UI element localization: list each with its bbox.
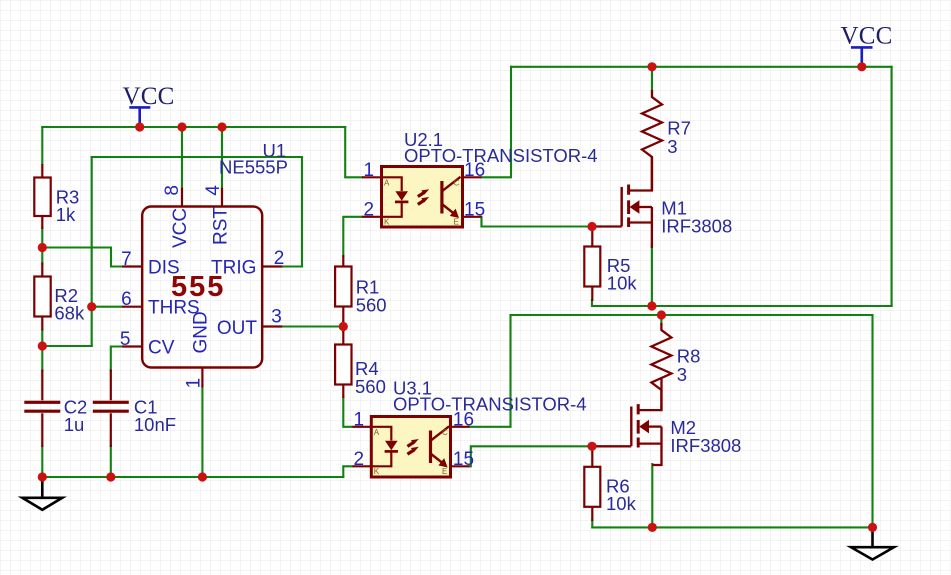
junction THRS [87,302,96,311]
svg-text:C: C [442,428,448,437]
transistor M2 MOSFET [592,377,741,465]
svg-text:560: 560 [356,295,387,316]
capacitor C2 [24,370,87,448]
wire U3 pin2 to ground rail [343,466,352,477]
svg-text:1: 1 [364,160,375,181]
svg-text:3: 3 [271,307,282,328]
U3 phototransistor [431,426,450,467]
resistor R4 [335,331,386,398]
svg-text:GND: GND [191,311,212,353]
wire R8 top lead [660,315,662,325]
resistor R1 [335,255,386,323]
wire bottom-right ground rail [592,526,872,528]
junction R3-R2 / DIS [38,243,47,252]
wire U3 pin16 riser [470,315,511,427]
U2 pin 2 stub [362,216,382,218]
transistor M1 MOSFET [592,157,732,248]
junction VCC1 stem [135,122,144,131]
U1 pin numbers [120,185,284,389]
wire THRS to pin [92,306,123,308]
wire B horizontal (R8 rail) [511,314,873,316]
svg-text:IRF3808: IRF3808 [661,216,732,237]
svg-text:4: 4 [203,185,224,196]
wire U2 pin16 riser [482,67,512,178]
ground symbol GND right [851,527,894,559]
U3 pin numbers [354,409,475,470]
wire 555 pin8 riser [181,127,183,188]
svg-text:1u: 1u [64,414,85,435]
svg-text:3: 3 [677,364,687,385]
svg-text:E: E [454,218,459,227]
svg-text:560: 560 [355,376,386,397]
wire M2 source drop [651,464,653,527]
wire R6 bottom lead [591,520,593,527]
wire C2 to ground rail [41,446,43,477]
wire R3 top riser [41,127,43,164]
junction M1 source rail [647,301,656,310]
junction R8 wire B [657,310,666,319]
U2 phototransistor [442,177,461,218]
junction VCC2 stem [857,62,866,71]
resistor R6 [584,445,636,521]
junction bottom rail ground [868,523,877,532]
pin 5 CV stub [122,345,142,347]
U3 LED [372,427,398,467]
wire C1 to ground rail [110,446,112,477]
supply symbol VCC right [851,47,873,66]
wire R2-C2 link [41,330,43,371]
pin 8 VCC stub [181,188,183,207]
wire M1 source lead lower [651,246,653,306]
wire VCC top-left rail [42,126,345,128]
resistor R3 [34,164,79,229]
wire U2 pin15 to M1 gate [482,217,593,227]
pin 4 RST stub [221,188,223,207]
resistor R2 [34,263,85,331]
junction OUT R1 R4 [339,322,348,331]
svg-text:K: K [374,467,380,476]
optocoupler U3.1 [353,378,587,477]
svg-text:K: K [384,218,390,227]
optocoupler U2.1 [362,129,598,227]
svg-text:VCC: VCC [123,83,175,110]
pin 2 TRIG stub [262,265,282,267]
svg-text:1k: 1k [56,204,76,225]
junction ground rail GND pin [198,472,207,481]
svg-text:A: A [374,428,380,437]
svg-text:TRIG: TRIG [211,257,256,278]
wire R7 top lead [651,67,653,92]
wire U3 pin15 to M2 gate [470,446,593,466]
svg-text:10nF: 10nF [134,414,176,435]
junction M1 gate R5 [587,222,596,231]
wire M1 source rail (wire A) [592,300,892,306]
svg-text:VCC: VCC [170,208,191,248]
U2 pin 15 stub [463,216,482,218]
wire U2 pin2 to R1 [343,217,362,256]
junction pin8 riser [177,122,186,131]
wire R1-R4 link [342,321,344,332]
svg-text:E: E [442,467,447,476]
wire R2 bottom to THRS column [42,345,91,347]
wire OUT net [282,325,343,327]
U2 pin numbers [364,160,486,221]
svg-text:1: 1 [354,409,365,430]
resistor R5 [584,225,637,301]
wire 555 GND riser [201,386,203,477]
resistor R7 zigzag [642,90,691,191]
svg-text:NE555P: NE555P [219,156,288,177]
U1 pin names [148,207,257,359]
U3 pin 15 stub [451,465,470,467]
svg-text:68k: 68k [54,303,85,324]
capacitor C1 [93,370,176,448]
U2 pin 1 stub [362,176,382,178]
resistor R8 zigzag [651,323,700,411]
svg-text:IRF3808: IRF3808 [670,435,741,456]
U3 light arrows [407,439,419,456]
supply symbol VCC left [129,107,150,127]
U3 pin 2 stub [353,465,372,467]
svg-text:A: A [384,179,390,188]
svg-text:CV: CV [148,337,175,358]
junction ground rail C2 [38,472,47,481]
wire DIS net [42,248,122,267]
svg-text:7: 7 [121,249,132,270]
svg-text:15: 15 [453,449,474,470]
wire THRS vertical [91,157,93,346]
wire right drop to M1 source rail [891,67,893,306]
junction R2-C2 [38,341,47,350]
svg-text:VCC: VCC [841,22,893,49]
wire 555 pin4 riser [221,127,223,188]
wire R3-R2 link [41,228,43,264]
U1 pin stubs [122,188,282,388]
svg-text:3: 3 [667,136,677,157]
U3 pin 16 stub [451,426,470,428]
pin 6 THRS stub [122,306,142,308]
pin 3 OUT stub [262,325,282,327]
wire B right drop [871,315,873,527]
ground symbol GND left [22,477,62,510]
svg-text:15: 15 [464,199,485,220]
svg-text:OPTO-TRANSISTOR-4: OPTO-TRANSISTOR-4 [404,145,598,166]
svg-text:1: 1 [184,378,205,389]
junction R7 VCC rail [647,62,656,71]
svg-text:C: C [454,179,460,188]
svg-text:5: 5 [120,329,131,350]
svg-text:6: 6 [121,289,132,310]
wire U2 pin1 riser from rail [345,127,362,177]
U2 LED [383,177,409,217]
junction ground rail C1 [106,472,115,481]
op-amp U1 555 body [142,207,262,368]
svg-text:8: 8 [162,185,183,196]
pin 1 GND stub [201,368,203,388]
wire R4 to U3 pin1 [343,397,352,427]
wire TRIG riser [282,157,302,267]
svg-text:DIS: DIS [148,257,180,278]
svg-text:RST: RST [210,207,231,245]
svg-text:OPTO-TRANSISTOR-4: OPTO-TRANSISTOR-4 [393,394,587,415]
junction M2 source bottom rail [648,523,657,532]
U2 light arrows [417,189,429,206]
U2 pin 16 stub [463,176,482,178]
wire CV net [111,347,122,372]
junction M2 gate R6 [587,442,596,451]
svg-text:10k: 10k [607,273,638,294]
pin 7 DIS stub [122,265,142,267]
wire VCC top-right rail [511,66,892,68]
svg-text:10k: 10k [606,493,637,514]
wire bottom-left ground rail [42,476,343,478]
svg-text:2: 2 [274,248,285,269]
wire TRIG net horizontal [92,156,302,158]
svg-text:2: 2 [354,449,365,470]
junction pin4 riser [217,122,226,131]
U3 pin 1 stub [353,426,372,428]
svg-text:2: 2 [364,199,375,220]
svg-text:OUT: OUT [217,318,258,339]
